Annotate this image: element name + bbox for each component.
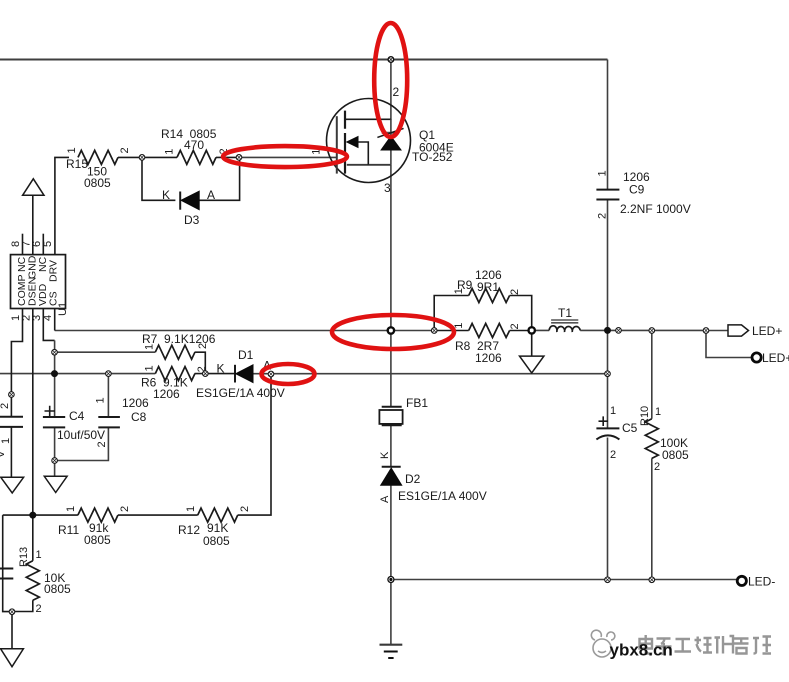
- svg-text:2: 2: [0, 403, 11, 409]
- wire U1 pin7 to arrow: [32, 195, 34, 254]
- svg-text:K: K: [217, 362, 225, 376]
- node R10 top junction: [649, 328, 655, 334]
- svg-text:A: A: [379, 495, 391, 503]
- svg-text:A: A: [207, 188, 215, 202]
- ground below left cap: [1, 477, 24, 493]
- wire VDD column: [54, 340, 56, 417]
- wire R13 bottom bend: [12, 600, 33, 611]
- op-amp U1 (controller IC box): [10, 241, 69, 321]
- svg-text:ybx8.cn: ybx8.cn: [610, 641, 673, 660]
- connector LED- ring: [737, 576, 746, 585]
- node R13 ground junction: [9, 609, 15, 615]
- wire DSEN bottom row: [3, 514, 78, 516]
- diode D1: [235, 365, 253, 383]
- resistor R12: [198, 508, 238, 522]
- svg-text:1: 1: [65, 506, 77, 512]
- svg-text:10uf/50V: 10uf/50V: [57, 428, 105, 442]
- svg-text:2: 2: [239, 506, 251, 512]
- svg-text:K: K: [379, 451, 391, 459]
- svg-text:2: 2: [596, 213, 608, 219]
- svg-text:3: 3: [384, 181, 391, 195]
- resistor R11: [78, 508, 118, 522]
- red annotation ellipse gate wire: [223, 146, 347, 167]
- svg-text:R8: R8: [455, 339, 471, 353]
- node R7 feed junction: [52, 349, 58, 355]
- node R15-R14 junction: [139, 155, 145, 161]
- wire C5 column: [607, 330, 609, 579]
- wire LED+ feed: [706, 330, 728, 332]
- wire top rail: [0, 59, 608, 61]
- diode D3: [180, 191, 199, 210]
- svg-text:ES1GE/1A 400V: ES1GE/1A 400V: [398, 489, 487, 503]
- svg-text:C4: C4: [69, 409, 85, 423]
- wire C8 top drop: [107, 374, 109, 417]
- wire D2 ground stem: [390, 580, 392, 645]
- svg-text:0805: 0805: [44, 582, 71, 596]
- svg-text:R15: R15: [66, 157, 88, 171]
- svg-text:1: 1: [143, 365, 155, 371]
- red annotation ellipse D1 anode: [262, 364, 315, 384]
- wire FB1 stem upper: [390, 331, 392, 407]
- node R8 pin1 junction: [431, 328, 437, 334]
- inductor T1: [549, 326, 580, 332]
- svg-text:LED+: LED+: [752, 324, 782, 338]
- watermark ybx8.cn: [610, 641, 673, 660]
- svg-text:C9: C9: [629, 183, 645, 197]
- power arrow above U1 pin7: [23, 179, 44, 196]
- resistor R10: [645, 419, 658, 459]
- svg-text:0805: 0805: [84, 176, 111, 190]
- ground below C4: [44, 476, 67, 492]
- node D1 line to C5 junction: [605, 371, 611, 377]
- wire D3 loop left: [142, 157, 175, 200]
- svg-text:D3: D3: [184, 213, 200, 227]
- node DSEN junction: [30, 512, 36, 518]
- wire R8 leads: [434, 330, 532, 332]
- red annotation ellipse CS rail junction: [332, 315, 454, 349]
- svg-text:1: 1: [95, 397, 107, 403]
- node C4-C8 bottom junction: [52, 458, 58, 464]
- svg-text:91K: 91K: [207, 521, 228, 535]
- svg-text:2: 2: [36, 603, 42, 615]
- resistor R13: [26, 561, 39, 600]
- wire R11-R12 link: [118, 514, 198, 516]
- node Q1 drain on top rail: [388, 57, 394, 63]
- transistor Q1: [327, 99, 411, 183]
- node R6-D1 junction: [203, 371, 209, 377]
- svg-text:LED+: LED+: [762, 351, 789, 365]
- wire R13 ground stem: [11, 612, 13, 649]
- svg-text:1: 1: [596, 170, 608, 176]
- svg-text:1: 1: [185, 506, 197, 512]
- capacitor C8: [98, 417, 120, 427]
- wire C4 bottom to ground: [54, 427, 56, 476]
- resistor R7: [155, 345, 195, 359]
- red annotation ellipse top (Q1 drain): [374, 23, 407, 137]
- svg-text:2: 2: [393, 85, 400, 99]
- wire DRV riser to R15: [55, 157, 69, 254]
- node C8 top junction: [106, 371, 112, 377]
- svg-text:1206: 1206: [475, 351, 502, 365]
- ferrite bead FB1: [379, 407, 402, 425]
- capacitor C4: [43, 406, 65, 428]
- node T1 left junction: [529, 327, 535, 333]
- wire CS rail: [55, 330, 435, 332]
- svg-text:R7 9.1K1206: R7 9.1K1206: [142, 332, 216, 346]
- resistor R14: [177, 150, 216, 164]
- svg-text:T1: T1: [558, 306, 572, 320]
- wire U1 pin1 COMP down-left: [11, 309, 22, 417]
- node R10 bottom junction: [649, 577, 655, 583]
- wire Q1 drain stem: [390, 60, 392, 121]
- ground below R8/R9: [520, 356, 544, 373]
- wire R9 loop: [434, 296, 532, 357]
- svg-text:1: 1: [36, 549, 42, 561]
- wire R13 top lead: [32, 515, 34, 561]
- diode D2: [381, 467, 402, 486]
- svg-text:1: 1: [610, 405, 616, 417]
- ground below R13: [1, 649, 24, 667]
- svg-text:1: 1: [0, 438, 12, 444]
- wire U1 pin2 DSEN column: [32, 309, 34, 516]
- svg-text:ES1GE/1A 400V: ES1GE/1A 400V: [196, 386, 285, 400]
- connector LED+ arrow: [728, 325, 749, 336]
- wire D2 anode to bottom rail: [390, 485, 392, 579]
- ground IEC below D2: [380, 645, 403, 658]
- capacitor left edge (cut): [0, 417, 23, 427]
- wire C4-C8 bottom link: [55, 427, 109, 460]
- wire LED+ lower feed: [706, 331, 752, 358]
- svg-text:R10: R10: [639, 406, 651, 426]
- svg-text:R12: R12: [178, 523, 200, 537]
- wire Q1 source stem down to CS rail: [390, 165, 392, 331]
- wire D3 loop right: [199, 157, 239, 200]
- wire U1 pin8 stub: [22, 234, 24, 255]
- svg-text:D2: D2: [405, 472, 421, 486]
- svg-text:1206: 1206: [153, 387, 180, 401]
- wire R12 up to D1 junction: [238, 374, 271, 515]
- svg-text:R9: R9: [457, 278, 473, 292]
- wire bottom rail: [391, 579, 737, 581]
- resistor R9: [469, 289, 510, 303]
- svg-text:2: 2: [509, 289, 521, 295]
- wire R10 column: [651, 331, 653, 580]
- svg-text:4: 4: [42, 315, 54, 321]
- wire R6 out to D1: [195, 373, 235, 375]
- wire left cap lower lead: [10, 427, 12, 477]
- node Q1 source junction: [388, 327, 394, 333]
- svg-text:U1: U1: [57, 302, 69, 316]
- node left cap top junction: [9, 392, 15, 398]
- svg-text:LED-: LED-: [748, 575, 775, 589]
- wire R6 net left: [0, 373, 155, 375]
- node R14-gate junction: [236, 155, 242, 161]
- svg-text:2: 2: [119, 147, 131, 153]
- svg-text:C5: C5: [622, 421, 638, 435]
- wire left drop to R13 ground: [3, 515, 12, 612]
- node LED+ branch junction: [703, 328, 709, 334]
- svg-text:0805: 0805: [662, 448, 689, 462]
- svg-text:1: 1: [163, 149, 175, 155]
- svg-text:2: 2: [119, 506, 131, 512]
- svg-text:9R1: 9R1: [477, 280, 499, 294]
- svg-text:0805: 0805: [203, 534, 230, 548]
- wire T1 leads: [532, 329, 706, 331]
- node D1 anode junction: [268, 371, 274, 377]
- wire U1 pin4 CS bend: [54, 309, 56, 331]
- svg-text:V: V: [0, 450, 7, 458]
- svg-text:FB1: FB1: [406, 396, 428, 410]
- resistor R6: [155, 367, 195, 381]
- svg-text:D1: D1: [238, 348, 254, 362]
- node connector pin circle: [616, 328, 622, 334]
- node C5 bottom junction: [605, 577, 611, 583]
- svg-text:1: 1: [66, 147, 78, 153]
- svg-text:R11: R11: [58, 523, 79, 537]
- capacitor C9: [596, 190, 619, 200]
- wire FB1 to D2: [390, 425, 392, 467]
- wire D1 anode to C5 column: [253, 373, 608, 375]
- svg-text:0805: 0805: [84, 533, 111, 547]
- wire gate from R14 to Q1: [239, 156, 337, 158]
- svg-text:1206: 1206: [122, 396, 149, 410]
- node C9 line junction: [605, 327, 611, 333]
- resistor R8: [469, 324, 510, 338]
- svg-text:1: 1: [655, 406, 661, 418]
- wire R7 out bend down: [195, 352, 206, 373]
- svg-text:470: 470: [184, 138, 204, 152]
- wire R14 to gate junction: [216, 156, 239, 158]
- capacitor C5: [596, 416, 619, 439]
- svg-text:2: 2: [654, 461, 660, 473]
- svg-text:2: 2: [96, 441, 108, 447]
- svg-text:K: K: [162, 188, 170, 202]
- svg-text:2: 2: [509, 323, 521, 329]
- wire C9 stem: [607, 60, 609, 331]
- connector LED+ ring: [752, 353, 761, 362]
- node D2 bottom rail junction: [388, 577, 394, 583]
- svg-text:2: 2: [610, 449, 616, 461]
- watermark chinese text: [640, 635, 772, 654]
- svg-text:R13: R13: [18, 547, 30, 567]
- capacitor left edge lower (cut): [0, 569, 13, 579]
- svg-text:2.2NF 1000V: 2.2NF 1000V: [620, 202, 691, 216]
- svg-text:5: 5: [42, 241, 54, 247]
- svg-text:TO-252: TO-252: [412, 150, 453, 164]
- wire R7 feed: [55, 351, 156, 353]
- svg-text:C8: C8: [131, 410, 147, 424]
- wire U1 pin3 VDD bend: [43, 309, 54, 341]
- watermark logo: [591, 630, 615, 657]
- wire R15-R14 link: [118, 156, 177, 158]
- resistor R15: [78, 150, 118, 164]
- svg-text:DRV: DRV: [48, 260, 60, 282]
- node VDD-R6 junction: [52, 371, 58, 377]
- wire U1 pin6 stub: [42, 234, 44, 255]
